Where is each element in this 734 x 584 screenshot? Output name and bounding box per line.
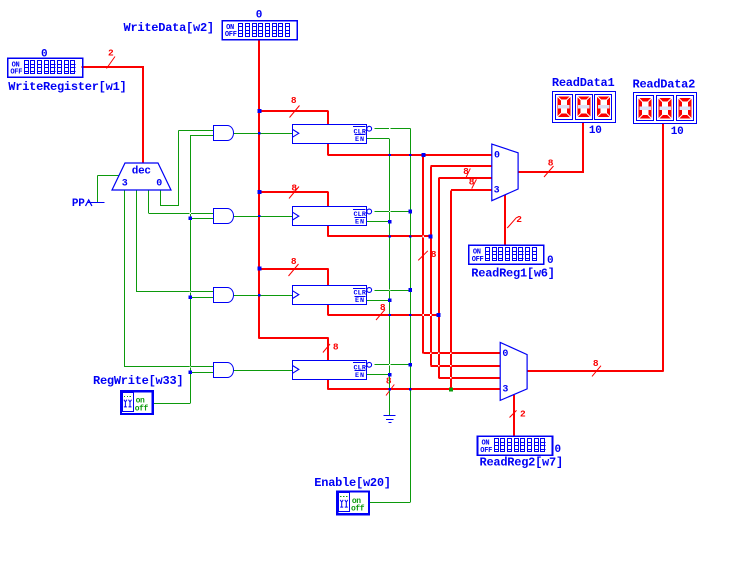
svg-text:8: 8 bbox=[431, 249, 437, 260]
svg-text:ReadData1: ReadData1 bbox=[552, 76, 615, 90]
svg-text:8: 8 bbox=[291, 95, 297, 106]
svg-text:RegWrite[w33]: RegWrite[w33] bbox=[93, 374, 183, 388]
svg-text:OFF: OFF bbox=[472, 256, 484, 264]
svg-text:ReadData2: ReadData2 bbox=[633, 78, 696, 92]
svg-text:8: 8 bbox=[386, 375, 392, 386]
svg-text:8: 8 bbox=[333, 342, 339, 353]
svg-text:3: 3 bbox=[494, 185, 500, 196]
svg-text:OFF: OFF bbox=[480, 447, 492, 455]
svg-text:Enable[w20]: Enable[w20] bbox=[314, 476, 390, 490]
svg-text:0: 0 bbox=[494, 150, 500, 161]
svg-text:2: 2 bbox=[108, 48, 114, 59]
svg-text:WriteData[w2]: WriteData[w2] bbox=[124, 21, 214, 35]
svg-text:dec: dec bbox=[132, 165, 151, 177]
svg-text:10: 10 bbox=[671, 126, 684, 138]
svg-text:PP: PP bbox=[72, 198, 85, 210]
svg-text:EN: EN bbox=[355, 372, 365, 380]
svg-text:OFF: OFF bbox=[10, 69, 22, 77]
svg-text:2: 2 bbox=[520, 408, 526, 419]
svg-text:EN: EN bbox=[355, 136, 365, 144]
svg-text:8: 8 bbox=[593, 358, 599, 369]
svg-text:0: 0 bbox=[502, 349, 508, 360]
svg-text:0: 0 bbox=[156, 178, 162, 189]
svg-text:8: 8 bbox=[291, 182, 297, 193]
svg-text:EN: EN bbox=[355, 297, 365, 305]
svg-text:0: 0 bbox=[256, 10, 262, 22]
svg-text:10: 10 bbox=[589, 125, 602, 137]
svg-text:8: 8 bbox=[291, 256, 297, 267]
svg-text:EN: EN bbox=[355, 219, 365, 227]
svg-text:8: 8 bbox=[380, 302, 386, 313]
svg-text:8: 8 bbox=[463, 166, 469, 177]
svg-text:2: 2 bbox=[516, 214, 522, 225]
svg-text:ReadReg2[w7]: ReadReg2[w7] bbox=[480, 456, 563, 470]
svg-text:ReadReg1[w6]: ReadReg1[w6] bbox=[471, 266, 554, 280]
svg-text:0: 0 bbox=[547, 255, 553, 267]
svg-text:3: 3 bbox=[502, 385, 508, 396]
svg-text:0: 0 bbox=[41, 49, 47, 61]
svg-text:8: 8 bbox=[469, 177, 475, 188]
svg-text:WriteRegister[w1]: WriteRegister[w1] bbox=[8, 80, 126, 94]
svg-text:8: 8 bbox=[548, 158, 554, 169]
svg-text:0: 0 bbox=[555, 444, 561, 456]
svg-text:off: off bbox=[135, 404, 149, 413]
svg-text:3: 3 bbox=[122, 178, 128, 189]
svg-text:OFF: OFF bbox=[225, 31, 237, 39]
svg-text:off: off bbox=[351, 505, 365, 514]
